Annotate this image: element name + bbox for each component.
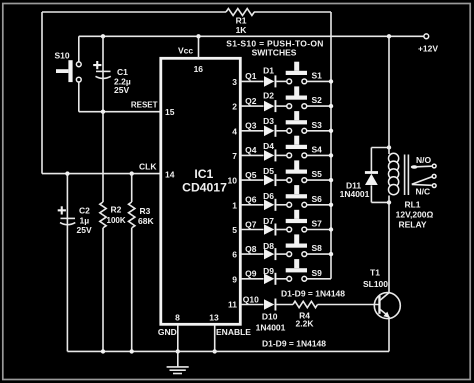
- svg-text:10: 10: [228, 176, 238, 186]
- node bus junction S8: [329, 252, 333, 256]
- resistor R2: [100, 112, 126, 352]
- diode D2: [263, 91, 276, 112]
- terminal +12V: [418, 34, 438, 54]
- svg-text:ENABLE: ENABLE: [216, 327, 251, 337]
- relay RL1 coil: [389, 153, 399, 194]
- switch S2: [276, 86, 331, 108]
- svg-text:CLK: CLK: [139, 162, 157, 172]
- switch S7: [276, 210, 331, 232]
- svg-text:S2: S2: [312, 95, 323, 105]
- svg-text:Q2: Q2: [245, 96, 257, 106]
- node Q2 pin 2: [232, 96, 263, 112]
- svg-text:12V,200Ω: 12V,200Ω: [396, 209, 434, 219]
- label RL1: [396, 199, 434, 229]
- wire D10 to R4: [276, 304, 293, 306]
- wire R4 to base: [318, 304, 379, 306]
- wire emitter down: [388, 317, 390, 352]
- svg-text:D2: D2: [263, 91, 274, 101]
- node Q5 pin 10: [228, 170, 264, 186]
- svg-text:Q10: Q10: [243, 295, 259, 305]
- svg-text:CD4017: CD4017: [182, 181, 227, 195]
- ground: [167, 351, 189, 373]
- svg-text:R2: R2: [111, 204, 122, 214]
- diode D8: [263, 241, 276, 260]
- capacitor C2: [58, 174, 92, 352]
- svg-text:RL1: RL1: [404, 199, 420, 209]
- svg-text:Q7: Q7: [245, 219, 257, 229]
- node R3 bottom: [130, 349, 134, 353]
- bottom rail wire: [67, 350, 389, 352]
- resistor R3: [129, 174, 155, 352]
- diode D7: [263, 216, 276, 235]
- pin 13 ENABLE: [209, 313, 251, 354]
- pin 16 Vcc: [178, 36, 203, 74]
- svg-text:Q1: Q1: [245, 71, 257, 81]
- resistor R4: [293, 301, 318, 328]
- svg-text:Q5: Q5: [245, 170, 257, 180]
- svg-text:T1: T1: [370, 267, 380, 277]
- svg-text:15: 15: [165, 107, 175, 117]
- switch S3: [276, 111, 331, 133]
- diode D6: [263, 191, 276, 211]
- svg-text:SWITCHES: SWITCHES: [252, 48, 297, 58]
- svg-text:D10: D10: [262, 311, 278, 321]
- wire +12V rail: [79, 35, 424, 37]
- svg-text:S3: S3: [312, 120, 323, 130]
- svg-text:68K: 68K: [138, 216, 154, 226]
- svg-text:D1: D1: [263, 66, 274, 76]
- svg-text:D6: D6: [263, 191, 274, 201]
- wire CLK line: [42, 173, 160, 175]
- svg-text:RELAY: RELAY: [398, 219, 426, 229]
- relay contacts: [411, 155, 436, 197]
- svg-text:S6: S6: [312, 194, 323, 204]
- svg-text:D9: D9: [263, 266, 274, 276]
- node relay branch junction: [387, 34, 391, 38]
- wire top horizontal to R1: [42, 11, 226, 13]
- svg-text:C1: C1: [117, 67, 128, 77]
- node bus junction S2: [329, 104, 333, 108]
- diode D1: [263, 66, 276, 88]
- svg-text:D4: D4: [263, 141, 274, 151]
- transistor T1: [363, 267, 400, 318]
- svg-text:5: 5: [232, 225, 237, 235]
- svg-text:11: 11: [228, 300, 237, 310]
- relay core: [405, 155, 409, 196]
- svg-text:D1-D9 = 1N4148: D1-D9 = 1N4148: [262, 338, 326, 348]
- node bus junction S3: [329, 129, 333, 133]
- svg-text:2.2K: 2.2K: [296, 319, 315, 329]
- diode D4: [263, 141, 276, 162]
- diode D9: [263, 266, 276, 285]
- node Q3 pin 4: [232, 121, 263, 137]
- svg-text:R1: R1: [236, 16, 247, 26]
- svg-text:13: 13: [209, 313, 219, 323]
- svg-text:16: 16: [194, 64, 204, 74]
- switch S5: [276, 160, 331, 182]
- svg-text:Vcc: Vcc: [178, 46, 193, 56]
- switch S10: [54, 36, 81, 111]
- wire RESET line: [79, 111, 160, 113]
- switch S4: [276, 136, 331, 158]
- node Q8 pin 6: [232, 244, 263, 260]
- svg-text:D1-D9 = 1N4148: D1-D9 = 1N4148: [281, 289, 345, 299]
- svg-text:1: 1: [232, 200, 237, 210]
- wire top left vertical: [41, 12, 43, 174]
- svg-text:1N4001: 1N4001: [340, 189, 370, 199]
- svg-text:Q4: Q4: [245, 145, 257, 155]
- node Q1 pin 3: [232, 71, 263, 87]
- svg-text:S1: S1: [312, 70, 323, 80]
- wire R1 to bus corner: [254, 11, 331, 13]
- svg-text:1K: 1K: [236, 25, 248, 35]
- svg-text:D7: D7: [263, 216, 274, 226]
- resistor R1: [226, 9, 254, 36]
- switch S9: [276, 259, 331, 281]
- svg-text:Q8: Q8: [245, 244, 257, 254]
- node R2 bottom: [101, 349, 105, 353]
- svg-text:S5: S5: [312, 169, 323, 179]
- svg-text:1N4001: 1N4001: [256, 323, 286, 333]
- label S1-S10 note: [226, 39, 323, 58]
- diode D11: [340, 148, 389, 203]
- svg-text:GND: GND: [158, 327, 177, 337]
- node relay top junction: [387, 145, 391, 149]
- svg-text:7: 7: [232, 151, 237, 161]
- IC IC1 CD4017: [161, 58, 241, 324]
- switch S8: [276, 234, 331, 256]
- pin 8 GND: [158, 313, 180, 354]
- wire relay/collector vertical: [388, 36, 390, 154]
- node bus junction S7: [329, 227, 333, 231]
- svg-text:N/O: N/O: [416, 155, 432, 165]
- wire switch bus vertical: [330, 12, 332, 279]
- svg-text:8: 8: [175, 313, 180, 323]
- svg-text:SL100: SL100: [363, 279, 388, 289]
- node bus junction S6: [329, 203, 333, 207]
- svg-text:3: 3: [232, 77, 237, 87]
- node Q6 pin 1: [232, 195, 263, 211]
- node Vcc junction: [196, 34, 200, 38]
- svg-text:S10: S10: [54, 50, 69, 60]
- svg-text:Q9: Q9: [245, 269, 257, 279]
- switch S1: [276, 62, 331, 84]
- svg-text:4: 4: [232, 126, 237, 136]
- svg-text:Q3: Q3: [245, 121, 257, 131]
- svg-text:6: 6: [232, 250, 237, 260]
- svg-text:R3: R3: [140, 206, 151, 216]
- node bus junction S1: [329, 79, 333, 83]
- svg-text:S9: S9: [312, 268, 323, 278]
- svg-text:1µ: 1µ: [80, 215, 90, 225]
- node Q4 pin 7: [232, 145, 263, 161]
- node R3 junction: [130, 171, 134, 175]
- node RESET/C1 junction: [101, 110, 105, 114]
- svg-text:D5: D5: [263, 166, 274, 176]
- svg-text:25V: 25V: [77, 225, 92, 235]
- node relay bottom junction: [387, 200, 391, 204]
- node Q9 pin 9: [232, 269, 263, 285]
- svg-text:IC1: IC1: [194, 167, 213, 181]
- svg-text:D8: D8: [263, 241, 274, 251]
- svg-text:D3: D3: [263, 116, 274, 126]
- capacitor C1: [93, 36, 131, 111]
- node C1 top junction: [101, 34, 105, 38]
- diode D5: [263, 166, 276, 186]
- diode D3: [263, 116, 276, 137]
- svg-text:S4: S4: [312, 144, 323, 154]
- node bus junction S5: [329, 178, 333, 182]
- node C2 junction: [65, 171, 69, 175]
- svg-text:25V: 25V: [114, 85, 129, 95]
- svg-text:N/C: N/C: [415, 186, 430, 196]
- node bus junction S4: [329, 153, 333, 157]
- svg-text:RESET: RESET: [131, 101, 158, 110]
- svg-text:+12V: +12V: [418, 44, 438, 54]
- Q10 row: [228, 295, 264, 310]
- svg-text:S7: S7: [312, 219, 323, 229]
- svg-text:2: 2: [232, 102, 237, 112]
- svg-text:100K: 100K: [107, 216, 126, 225]
- switch S6: [276, 185, 331, 207]
- diode D10: [256, 299, 286, 333]
- svg-text:9: 9: [232, 274, 237, 284]
- node Q7 pin 5: [232, 219, 263, 235]
- svg-text:14: 14: [165, 170, 175, 180]
- svg-text:S8: S8: [312, 243, 323, 253]
- svg-text:C2: C2: [79, 206, 90, 216]
- svg-text:Q6: Q6: [245, 195, 257, 205]
